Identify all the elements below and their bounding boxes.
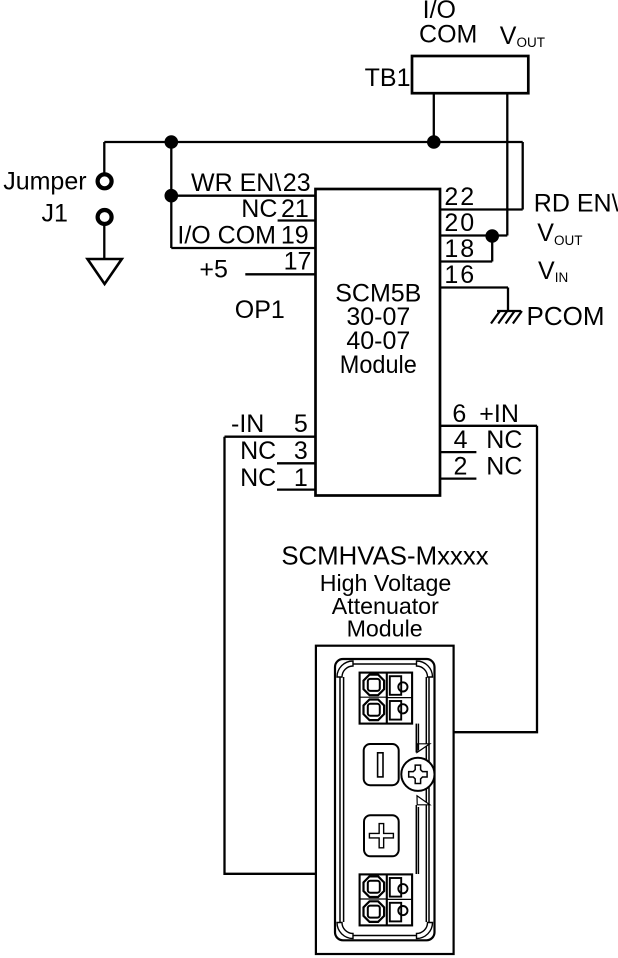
- jumper terminal bottom circle: [98, 210, 112, 224]
- screw head: [401, 758, 434, 791]
- corner wedge bottom-left: [337, 923, 353, 939]
- terminal block bottom: [360, 874, 413, 925]
- wire pin 18: [440, 260, 492, 262]
- svg-text:1: 1: [294, 464, 308, 492]
- wire WR EN to pin 23: [171, 195, 315, 197]
- junction TB1 left pin to top bus: [427, 135, 441, 149]
- svg-text:+IN: +IN: [479, 400, 519, 428]
- screw channel upper line: [415, 724, 417, 753]
- svg-text:NC: NC: [241, 195, 277, 223]
- wire jumper drop: [103, 142, 105, 173]
- svg-text:OP1: OP1: [235, 296, 285, 324]
- svg-text:+5: +5: [199, 256, 228, 284]
- svg-text:NC: NC: [240, 464, 276, 492]
- wire I/O COM to pin 19: [171, 247, 315, 249]
- svg-text:TB1: TB1: [365, 64, 411, 92]
- screw channel lower line 2: [417, 807, 419, 874]
- wire pin 16 down to PCOM ground: [507, 288, 509, 312]
- svg-text:4: 4: [454, 426, 468, 454]
- corner wedge bottom-right: [417, 923, 433, 939]
- svg-text:23: 23: [283, 169, 311, 197]
- wire stub pin 20 to pin 18: [491, 236, 493, 262]
- svg-text:J1: J1: [42, 199, 68, 227]
- svg-text:WR EN\: WR EN\: [191, 169, 281, 197]
- attenuator face inner outline: [340, 664, 429, 936]
- screw phillips cross: [409, 765, 427, 783]
- module SCM5B box: [316, 189, 441, 496]
- svg-text:Jumper: Jumper: [3, 168, 86, 196]
- plus button: [364, 815, 399, 856]
- wire NC stub pin 1: [277, 488, 316, 490]
- svg-text:6: 6: [452, 400, 466, 428]
- PCOM chassis ground symbol: [491, 311, 522, 324]
- wire NC stub pin 21: [278, 219, 316, 221]
- svg-text:22: 22: [444, 183, 476, 211]
- screw channel upper wedge: [417, 744, 430, 753]
- svg-text:RD EN\: RD EN\: [534, 189, 618, 217]
- svg-text:NC: NC: [486, 426, 522, 454]
- wire +5 to pin 17: [245, 273, 315, 275]
- wire vertical branch: [170, 142, 172, 248]
- svg-text:2: 2: [454, 453, 468, 481]
- svg-text:-IN: -IN: [231, 410, 264, 438]
- wire NC stub pin 2: [440, 477, 476, 479]
- wire TB1 right pin (VOUT): [506, 93, 508, 236]
- wire TB1 left pin: [433, 93, 435, 142]
- attenuator face right channel line: [425, 677, 427, 922]
- junction WR EN: [165, 189, 179, 203]
- svg-text:5: 5: [294, 410, 308, 438]
- wire -IN down left side to attenuator: [225, 437, 316, 874]
- wire J1 to ground: [103, 224, 105, 259]
- svg-text:NC: NC: [486, 453, 522, 481]
- svg-text:3: 3: [294, 437, 308, 465]
- wire NC stub pin 4: [440, 451, 476, 453]
- corner wedge top-left: [337, 661, 353, 677]
- svg-text:19: 19: [281, 221, 309, 249]
- attenuator face left channel line: [343, 677, 345, 922]
- attenuator face outline: [335, 659, 435, 940]
- wire +IN down right side to attenuator: [454, 426, 537, 732]
- svg-text:21: 21: [281, 195, 309, 223]
- screw channel lower wedge: [417, 796, 430, 805]
- attenuator outer box: [316, 646, 454, 954]
- svg-text:Module: Module: [347, 616, 423, 642]
- svg-text:Module: Module: [340, 351, 417, 379]
- svg-text:PCOM: PCOM: [527, 301, 605, 331]
- plus button cross: [369, 824, 393, 848]
- wire NC stub pin 3: [277, 462, 316, 464]
- wire pin 22 (RD EN): [440, 208, 523, 210]
- junction pin 20 / pin 18: [485, 229, 499, 243]
- svg-text:16: 16: [444, 261, 476, 289]
- svg-text:NC: NC: [240, 437, 276, 465]
- screw channel lower line: [415, 805, 417, 874]
- wire pin 5 (-IN): [225, 436, 316, 438]
- corner wedge top-right: [417, 661, 433, 677]
- svg-text:I/O COM: I/O COM: [177, 221, 276, 249]
- jumper terminal top circle: [98, 174, 112, 188]
- wire pin 6 (+IN): [440, 425, 537, 427]
- svg-text:18: 18: [444, 235, 476, 263]
- ground symbol (triangle): [88, 259, 122, 284]
- screw channel upper line 2: [417, 724, 419, 751]
- minus button: [364, 744, 399, 785]
- wire pin 20 (VOUT): [440, 234, 507, 236]
- svg-text:COM: COM: [419, 20, 477, 48]
- terminal block TB1: [412, 56, 528, 93]
- terminal block top: [360, 673, 413, 724]
- svg-text:17: 17: [284, 247, 312, 275]
- wire bus drop to pin 22: [522, 142, 524, 210]
- svg-text:20: 20: [444, 209, 476, 237]
- junction top bus / WR EN branch: [165, 135, 179, 149]
- wire pin 16 (VIN): [440, 286, 508, 288]
- svg-text:SCMHVAS-Mxxxx: SCMHVAS-Mxxxx: [281, 543, 488, 571]
- minus button bar: [378, 753, 383, 777]
- wire top horizontal bus: [104, 141, 522, 143]
